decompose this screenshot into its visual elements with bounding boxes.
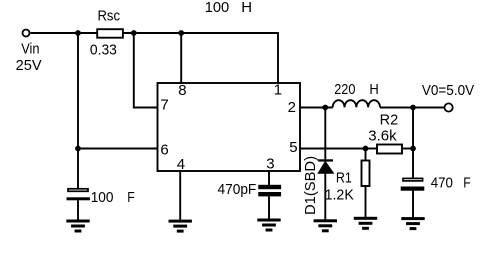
svg-text:4: 4 [177, 156, 185, 173]
capacitor C3 470uF bottom plate [401, 187, 425, 191]
ground (D1) [314, 219, 337, 232]
wire pin5 feedback row [300, 148, 366, 150]
svg-text:8: 8 [178, 82, 186, 99]
wire C2 to ground [268, 196, 270, 218]
wire C1 branch vertical [77, 33, 79, 189]
junction node A (Vin / C1 branch) [75, 30, 81, 36]
wire pin2 to switch node [300, 107, 333, 109]
svg-text:7: 7 [160, 97, 168, 114]
capacitor C3 470uF top plate [403, 178, 423, 181]
wire top rail left segment [31, 32, 98, 34]
svg-text:5: 5 [289, 139, 297, 156]
svg-text:470pF: 470pF [218, 181, 257, 198]
junction node FB (pin5 / R1 / R2) [363, 146, 369, 152]
wire FB to R1 [365, 149, 367, 161]
svg-text:25V: 25V [16, 57, 42, 74]
capacitor C1 100uF bottom plate [67, 197, 90, 200]
svg-text:H: H [369, 81, 378, 98]
resistor Rsc [97, 29, 123, 38]
wire pin8 drop [180, 33, 182, 83]
svg-text:220: 220 [334, 81, 355, 98]
wire C1 to ground [77, 200, 79, 219]
svg-text:470: 470 [431, 175, 453, 192]
svg-text:2: 2 [288, 99, 296, 116]
junction node B (Rsc out / pin7 branch) [131, 30, 137, 36]
junction node R2 out [410, 146, 416, 152]
svg-text:3: 3 [266, 155, 274, 172]
junction node C (pin8 tap) [178, 30, 184, 36]
wire R2 to VOUT column [402, 148, 413, 150]
wire L1 to output [380, 107, 445, 109]
wire pin7 branch [134, 33, 158, 108]
capacitor C1 100uF top plate [68, 189, 88, 192]
ground (C3) [401, 217, 424, 230]
svg-text:3.6k: 3.6k [368, 128, 397, 145]
junction node VOUT [410, 105, 416, 111]
wire VOUT column vertical [412, 108, 414, 178]
svg-text:100: 100 [205, 0, 230, 16]
wire FB to R2 [366, 148, 378, 150]
svg-text:1.2K: 1.2K [325, 186, 354, 203]
capacitor C2 470pF bottom plate [258, 192, 281, 196]
resistor R1 [362, 161, 370, 187]
svg-text:100: 100 [91, 189, 114, 206]
junction node SW (pin2 / D1 / L1) [322, 105, 328, 111]
ground (C1) [66, 220, 89, 233]
svg-text:R1: R1 [336, 170, 352, 187]
svg-text:F: F [127, 189, 134, 206]
ground (C2) [257, 219, 280, 232]
svg-text:D1(SBD): D1(SBD) [302, 156, 319, 215]
wire pin3 drop [268, 171, 270, 185]
terminal Vin input [23, 30, 30, 37]
resistor R2 [377, 145, 402, 154]
svg-text:Rsc: Rsc [98, 7, 121, 24]
op-amp U1 (regulator IC body) [158, 83, 301, 171]
svg-text:1: 1 [274, 81, 282, 98]
wire D1 branch vertical [324, 108, 326, 160]
wire pin1 drop [277, 32, 279, 83]
svg-text:H: H [241, 0, 252, 16]
svg-text:R2: R2 [380, 111, 399, 128]
wire pin4 drop [179, 171, 181, 220]
svg-text:6: 6 [160, 141, 168, 158]
svg-text:V0=5.0V: V0=5.0V [422, 82, 474, 99]
ground (pin4) [169, 220, 192, 233]
diode D1 triangle [318, 162, 333, 174]
svg-text:Vin: Vin [21, 41, 39, 58]
svg-text:F: F [463, 175, 470, 192]
wire top rail right segment [123, 32, 278, 34]
inductor L1 220uH [333, 100, 380, 107]
terminal V0 output [445, 103, 453, 111]
wire pin6 row [78, 148, 158, 150]
wire D1 anode to ground [324, 173, 326, 220]
wire C3 to ground [412, 191, 414, 218]
diode D1 cathode bar [318, 159, 333, 161]
junction node D (pin6 / C1) [75, 146, 81, 152]
capacitor C2 470pF top plate [258, 185, 281, 189]
ground (R1) [354, 217, 377, 230]
svg-text:0.33: 0.33 [90, 41, 117, 58]
wire R1 to ground [365, 186, 367, 217]
